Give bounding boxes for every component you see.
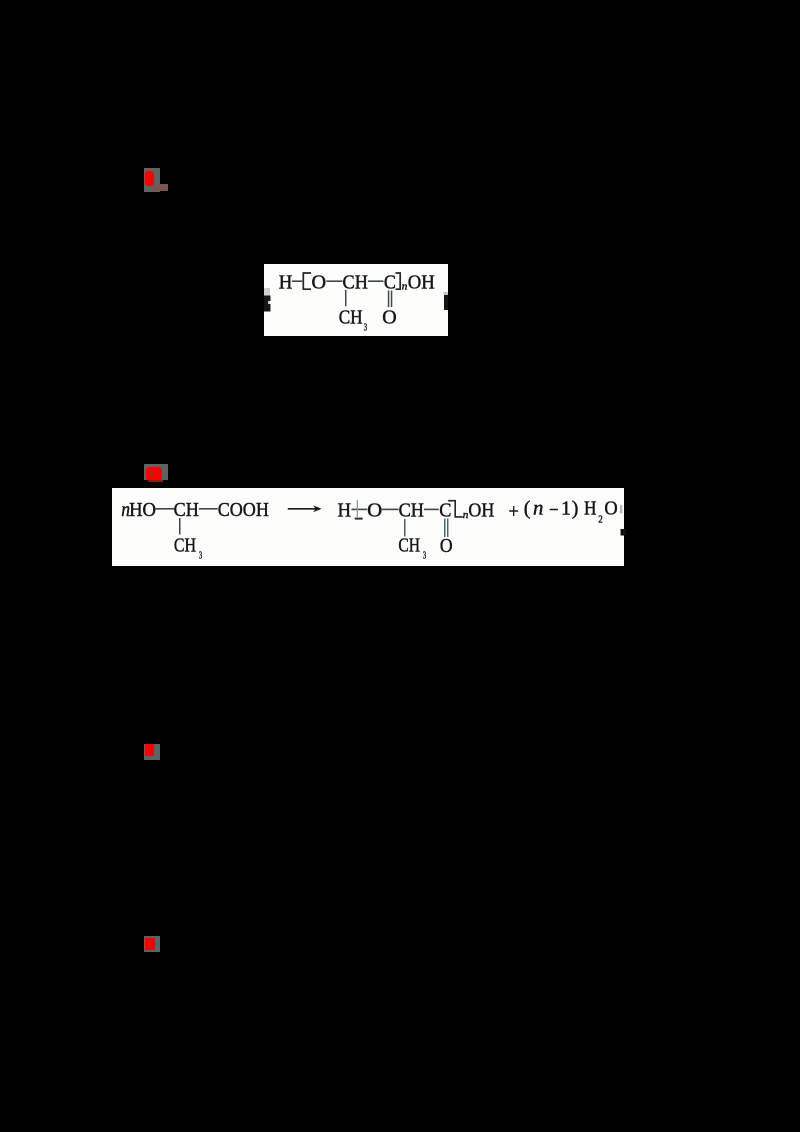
svg-text:−: − [549, 499, 559, 521]
svg-text:H: H [338, 499, 352, 521]
svg-text:2: 2 [598, 513, 603, 525]
faint left bracket of repeat unit [357, 500, 358, 517]
svg-text:O: O [312, 272, 327, 294]
svg-text:O: O [367, 499, 382, 521]
clipped glyph right edge of box 1 [444, 292, 449, 295]
svg-text:OH: OH [408, 272, 435, 294]
svg-text:n: n [533, 497, 543, 519]
svg-text:1: 1 [561, 497, 571, 519]
svg-text:O: O [440, 535, 453, 557]
svg-text:3: 3 [423, 549, 427, 561]
bond HO-CH [155, 508, 174, 510]
svg-text:3: 3 [199, 549, 203, 561]
svg-text:O: O [382, 307, 396, 329]
double bond C=O [388, 291, 390, 308]
dark bottom serif of left bracket [355, 517, 363, 519]
svg-text:COOH: COOH [218, 499, 269, 521]
left repeat bracket [303, 273, 311, 289]
svg-text:H: H [584, 497, 597, 519]
bond O-CH [326, 280, 342, 282]
right repeat bracket [396, 273, 401, 289]
svg-text:O: O [604, 497, 617, 519]
svg-text:H: H [279, 272, 293, 294]
svg-text:OH: OH [468, 499, 494, 521]
svg-text:CH: CH [398, 534, 420, 556]
gray clipped tick right edge [620, 504, 623, 512]
bond H-O right [351, 508, 367, 510]
clipped blob outside box 2 right edge [624, 529, 626, 535]
svg-text:(: ( [524, 497, 531, 519]
formula box 1 (white panel with H-[O-CH-C]n-OH structure) [264, 264, 448, 336]
svg-text:): ) [572, 497, 579, 519]
svg-text:C: C [439, 499, 451, 521]
vertical bond below left CH [179, 518, 181, 535]
svg-text:CH: CH [174, 534, 196, 556]
bond CH-C right [424, 508, 439, 510]
bond H to bracket [292, 280, 302, 282]
svg-text:HO: HO [129, 499, 156, 521]
svg-text:+: + [509, 500, 519, 522]
svg-text:C: C [384, 272, 396, 294]
bond CH-COOH [199, 508, 218, 510]
svg-text:CH: CH [399, 499, 424, 521]
formula box 2 (white panel with polymerization equation) [112, 488, 624, 567]
marker icon 1 (gray square with red blob and brown tail) [144, 168, 160, 192]
vertical bond CH-CH3 [345, 290, 347, 307]
svg-text:CH: CH [174, 499, 199, 521]
black clipped blob right edge [621, 529, 626, 536]
marker icon 4 (gray square with red square) [144, 936, 160, 952]
svg-text:CH: CH [339, 307, 363, 329]
bond O-CH right [382, 508, 399, 510]
double bond C=O right [444, 518, 446, 537]
marker icon 3 (gray square with red square) [144, 744, 160, 760]
vertical bond below right CH [404, 519, 406, 537]
marker icon 2 (gray rect with red rounded blob) [144, 464, 168, 480]
right repeat bracket: top serif left, bottom serif right [448, 500, 463, 516]
bond CH-C [368, 280, 384, 282]
svg-text:3: 3 [364, 321, 368, 333]
clipped glyph left edge of box 1 [264, 288, 270, 311]
reaction arrow [288, 507, 320, 509]
